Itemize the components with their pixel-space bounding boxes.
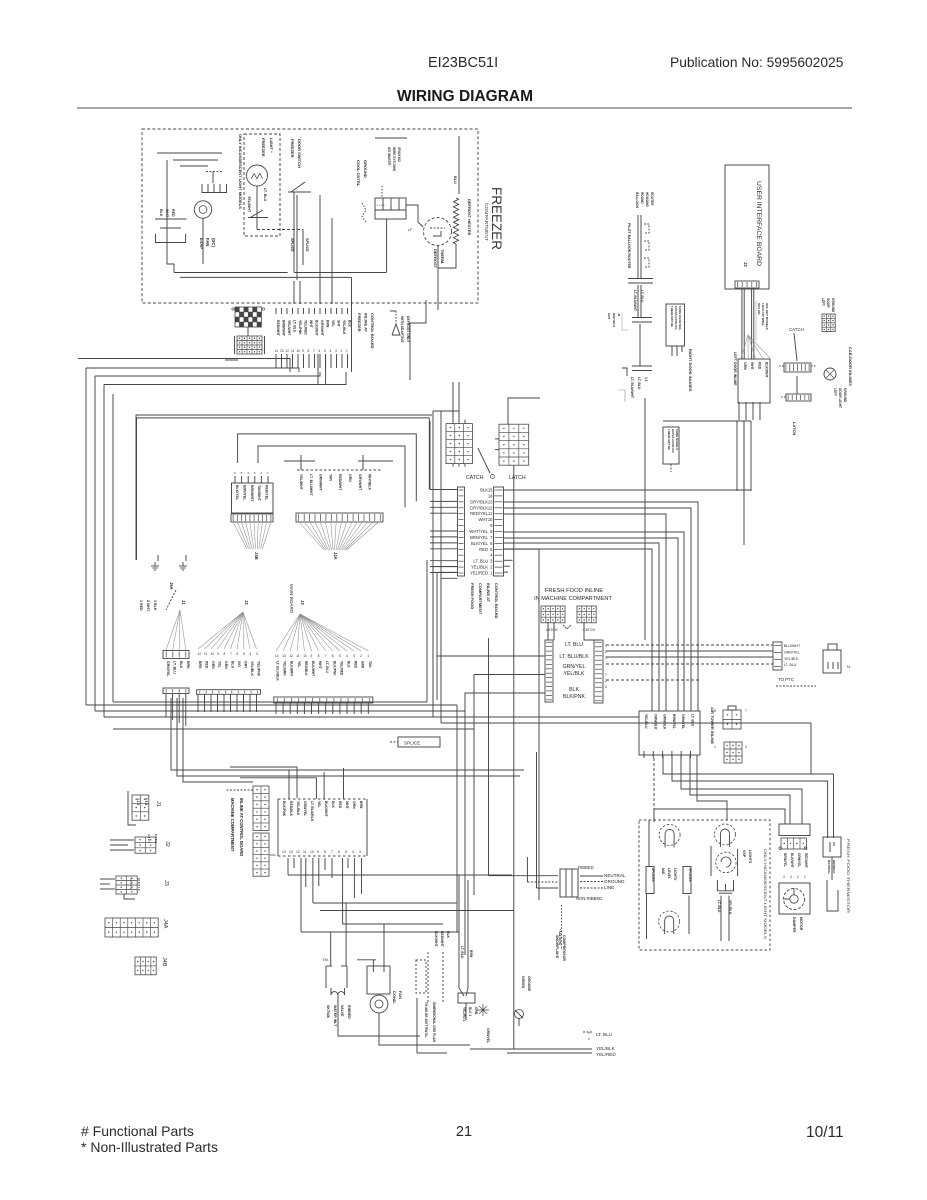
wire	[293, 192, 295, 211]
svg-text:J2: J2	[244, 600, 249, 605]
svg-text:VIO: VIO	[237, 661, 241, 667]
wire	[281, 354, 283, 368]
wire	[230, 767, 297, 798]
air tower box	[639, 711, 700, 755]
wire BLK15	[504, 489, 752, 491]
svg-text:BRN/YEL: BRN/YEL	[470, 535, 489, 540]
wire dashed	[606, 644, 773, 646]
svg-text:GROUND: GROUND	[604, 879, 625, 884]
wire	[302, 230, 304, 266]
svg-text:TAN: TAN	[368, 661, 372, 668]
svg-text:4 3 2 1: 4 3 2 1	[147, 834, 151, 844]
wire	[303, 354, 305, 368]
power plug box	[560, 869, 578, 897]
connector strip left	[458, 487, 465, 576]
svg-text:GRY/WHT: GRY/WHT	[358, 474, 362, 491]
svg-text:JMC: JMC	[270, 853, 277, 857]
light board corner circles	[779, 847, 782, 850]
wire	[177, 698, 520, 776]
wire	[430, 566, 458, 568]
svg-text:DOOR LIGHT: DOOR LIGHT	[838, 388, 842, 408]
svg-text:WIRE SYS DWG: WIRE SYS DWG	[392, 147, 396, 172]
wire	[172, 694, 174, 721]
balloon mid connector	[628, 278, 653, 280]
svg-text:3: 3	[256, 652, 258, 656]
wire	[430, 536, 458, 538]
user interface board box	[725, 165, 769, 289]
wire	[606, 679, 700, 681]
ground bolt	[515, 1010, 524, 1019]
wire rail	[174, 272, 288, 274]
svg-text:LEVEL: LEVEL	[667, 868, 671, 879]
wire	[418, 222, 423, 227]
wire	[157, 555, 159, 561]
svg-text:DOOR SWITCH: DOOR SWITCH	[297, 139, 302, 168]
svg-text:INLINE AT: INLINE AT	[486, 583, 491, 603]
wire	[357, 959, 376, 961]
wire	[430, 489, 458, 491]
svg-text:7: 7	[230, 652, 232, 656]
wire	[217, 694, 219, 712]
svg-text:LATCH: LATCH	[509, 475, 526, 481]
svg-text:FRESH FOOD INLINE: FRESH FOOD INLINE	[545, 588, 603, 594]
J4A connector	[105, 918, 158, 937]
wire	[256, 186, 258, 210]
J2 connector	[135, 837, 156, 853]
dashed bracket	[416, 960, 426, 993]
svg-text:2: 2	[745, 745, 747, 749]
svg-text:15: 15	[488, 488, 493, 493]
svg-text:2 WHT: 2 WHT	[146, 600, 150, 612]
svg-text:MAIN BOARD: MAIN BOARD	[289, 584, 294, 614]
wire	[343, 923, 443, 925]
note box 2 ticks	[671, 346, 673, 356]
catch-latch circle	[491, 475, 495, 479]
svg-text:SOME DOOR MDL: SOME DOOR MDL	[678, 306, 682, 331]
wire	[648, 820, 650, 866]
svg-text:2: 2	[360, 654, 362, 658]
svg-text:YEL/WHT: YEL/WHT	[287, 320, 291, 336]
wire	[300, 858, 302, 932]
svg-text:12: 12	[286, 349, 290, 353]
svg-text:YEL/BLK: YEL/BLK	[342, 320, 346, 335]
svg-text:WHT/BLK: WHT/BLK	[368, 474, 372, 491]
wire	[736, 421, 738, 491]
circle vsp	[716, 852, 736, 872]
freezer light switch	[248, 217, 268, 219]
svg-text:YEL/WHT: YEL/WHT	[247, 196, 251, 213]
svg-text:MOTOR: MOTOR	[799, 917, 803, 931]
svg-text:8: 8	[318, 654, 320, 658]
svg-text:BLU/WHT: BLU/WHT	[784, 644, 801, 648]
wire	[95, 372, 320, 376]
svg-text:11: 11	[488, 511, 493, 516]
wire	[331, 218, 333, 304]
svg-text:FREEZER: FREEZER	[489, 187, 504, 250]
svg-text:BLK/WHT: BLK/WHT	[790, 853, 794, 868]
evap fan connector bracket	[202, 184, 227, 193]
svg-text:8: 8	[324, 850, 326, 854]
svg-text:3: 3	[353, 654, 355, 658]
svg-text:WIRING DIAGRAM: WIRING DIAGRAM	[397, 88, 533, 105]
wire	[331, 281, 333, 304]
svg-text:GRY/BLK: GRY/BLK	[470, 499, 488, 504]
wire	[458, 136, 460, 194]
svg-text:J6A: J6A	[169, 582, 174, 590]
svg-text:ORN: ORN	[211, 661, 215, 669]
evap fan lower bracket	[156, 234, 186, 243]
svg-text:LEFT DOOR INLINE: LEFT DOOR INLINE	[733, 352, 737, 386]
wire	[429, 421, 431, 490]
wire	[292, 354, 294, 368]
ground symbol	[154, 562, 156, 566]
svg-text:SPLICES: SPLICES	[651, 868, 655, 882]
svg-text:ORN: ORN	[743, 362, 747, 370]
svg-text:2: 2	[797, 875, 799, 879]
svg-text:LT. BLU/BLK: LT. BLU/BLK	[310, 801, 314, 822]
svg-text:THERE MAY BE: THERE MAY BE	[670, 306, 674, 327]
svg-text:RED/WHT: RED/WHT	[804, 853, 808, 868]
wire	[355, 902, 456, 904]
svg-text:LIGHT *: LIGHT *	[269, 138, 274, 153]
wire	[238, 434, 417, 502]
svg-text:BLK/PNK: BLK/PNK	[563, 694, 585, 700]
svg-text:YEL/RED: YEL/RED	[470, 571, 488, 576]
svg-text:BLK/WHT: BLK/WHT	[311, 661, 315, 676]
mach grid lower	[253, 833, 269, 876]
light board connector box	[779, 824, 810, 836]
wire	[183, 698, 253, 782]
circle left door light	[824, 368, 836, 380]
wire	[547, 622, 549, 640]
wire	[104, 372, 346, 385]
wire	[256, 218, 258, 230]
svg-text:N: N	[847, 664, 850, 669]
svg-text:RIBBED: RIBBED	[347, 1005, 351, 1019]
svg-text:NEUTRAL: NEUTRAL	[604, 873, 626, 878]
svg-text:COMPARTMENT: COMPARTMENT	[483, 203, 489, 241]
wire	[474, 674, 545, 676]
J4B connector	[135, 957, 156, 975]
svg-text:4: 4	[352, 850, 354, 854]
wire	[339, 703, 341, 714]
wire	[330, 932, 332, 966]
svg-text:12: 12	[296, 850, 300, 854]
svg-text:7: 7	[605, 673, 607, 677]
svg-text:SPLICE: SPLICE	[290, 238, 294, 252]
svg-text:GRN: GRN	[474, 1007, 478, 1015]
catch leader diagonal	[478, 448, 490, 473]
wire	[372, 960, 374, 966]
ff inline grid left	[541, 606, 565, 623]
wire	[743, 289, 745, 359]
svg-text:J1: J1	[155, 801, 161, 807]
wire	[432, 411, 434, 717]
small grid	[822, 314, 835, 332]
wire	[299, 281, 301, 304]
wire	[341, 354, 343, 368]
wire bus	[663, 420, 751, 422]
svg-text:BRN: BRN	[326, 320, 330, 328]
freezer light dashed box	[244, 134, 280, 236]
wire	[379, 1013, 470, 1045]
wire	[286, 354, 288, 368]
svg-text:5 4 3 2 1: 5 4 3 2 1	[129, 878, 133, 889]
wire	[644, 398, 646, 640]
wire	[720, 896, 722, 941]
svg-text:BLK: BLK	[446, 931, 450, 939]
svg-text:SNOWFLAKE: SNOWFLAKE	[555, 935, 559, 959]
svg-text:BLK: BLK	[347, 661, 351, 668]
J1 fan	[166, 610, 180, 650]
to ptc dashes	[776, 685, 816, 687]
wire	[275, 703, 277, 714]
svg-text:ORN/YEL: ORN/YEL	[797, 853, 801, 867]
wire	[347, 354, 349, 368]
svg-text:# Functional Parts: # Functional Parts	[81, 1123, 194, 1139]
svg-text:SOME MODELS: SOME MODELS	[675, 429, 679, 450]
wire	[606, 656, 773, 658]
svg-text:LT. BLU: LT. BLU	[293, 320, 297, 333]
svg-text:J2: J2	[164, 841, 170, 847]
wire	[308, 354, 310, 368]
J4A top bracket	[284, 460, 315, 462]
ice maker connector box	[375, 198, 406, 210]
wire dashed	[381, 186, 383, 198]
lamp bulb 3	[659, 911, 680, 932]
svg-text:BLK/YEL: BLK/YEL	[235, 485, 239, 501]
svg-text:GREEN: GREEN	[521, 976, 525, 989]
wire	[637, 215, 639, 278]
wire	[697, 755, 727, 820]
svg-text:CATCH: CATCH	[789, 327, 804, 332]
wire	[452, 382, 454, 420]
small connector with dashes	[786, 394, 811, 401]
wire	[137, 417, 430, 419]
svg-text:J4A: J4A	[162, 919, 168, 929]
wire	[796, 376, 798, 394]
lamp bulb 1	[659, 824, 680, 845]
svg-text:3 BLK: 3 BLK	[153, 600, 157, 611]
svg-text:BLK/WHT: BLK/WHT	[324, 801, 328, 818]
svg-text:ONLY INCANDESCENT LIGHT MODELS: ONLY INCANDESCENT LIGHT MODELS	[238, 134, 243, 209]
J3 connector	[116, 876, 137, 894]
svg-text:COND.: COND.	[392, 991, 397, 1004]
wire rail	[180, 276, 352, 278]
UI fan	[741, 335, 748, 358]
svg-text:LT. BLU: LT. BLU	[637, 377, 641, 390]
wire	[282, 703, 284, 714]
svg-text:YEL/PNK: YEL/PNK	[298, 320, 302, 335]
svg-text:8: 8	[714, 709, 716, 713]
adaptive defrost triangle	[392, 324, 400, 335]
svg-text:BLK 1: BLK 1	[468, 1007, 472, 1016]
wire	[178, 694, 180, 724]
svg-text:HOUSING: HOUSING	[645, 192, 649, 207]
wire	[288, 874, 512, 876]
latch pin strip	[784, 363, 811, 372]
ff strip left	[545, 640, 553, 702]
svg-text:BLK/WHT: BLK/WHT	[765, 362, 769, 379]
wire	[465, 693, 545, 948]
wire	[437, 246, 439, 310]
svg-text:LIGHTS: LIGHTS	[673, 868, 677, 881]
svg-text:WHT/YEL: WHT/YEL	[469, 529, 488, 534]
wire	[197, 694, 199, 712]
splices box 2	[683, 867, 691, 894]
svg-text:YEL: YEL	[297, 661, 301, 667]
wire dashed	[527, 881, 558, 883]
wire	[406, 205, 418, 222]
svg-text:13: 13	[282, 654, 286, 658]
svg-text:MACHINE COMPARTMENT: MACHINE COMPARTMENT	[230, 798, 235, 852]
door switch symbol	[288, 191, 311, 193]
svg-text:3: 3	[359, 850, 361, 854]
svg-text:WITH ADAPTIVE: WITH ADAPTIVE	[400, 316, 404, 343]
wire	[347, 858, 349, 868]
svg-text:11: 11	[303, 850, 307, 854]
svg-text:RED: RED	[205, 661, 209, 669]
wire rail	[104, 716, 433, 718]
svg-text:RED/BLK: RED/BLK	[304, 661, 308, 676]
svg-text:BLK: BLK	[348, 320, 352, 328]
svg-text:4: 4	[330, 349, 332, 353]
wire	[319, 195, 321, 304]
svg-text:* Non-Illustrated Parts: * Non-Illustrated Parts	[81, 1139, 218, 1155]
evap fan connector ticks	[207, 184, 209, 193]
svg-text:FREEZER: FREEZER	[357, 313, 362, 332]
svg-text:DEFROST: DEFROST	[433, 249, 438, 269]
svg-text:CATCH: CATCH	[466, 475, 484, 481]
svg-text:1 2: 1 2	[644, 377, 648, 382]
power leaders	[580, 875, 603, 877]
damper motor box	[779, 883, 810, 914]
wire dashed	[606, 663, 773, 665]
svg-text:BLK: BLK	[331, 801, 335, 809]
svg-text:4: 4	[250, 652, 252, 656]
wire	[330, 354, 332, 368]
wire	[94, 376, 96, 711]
supply stub	[375, 137, 407, 139]
svg-text:LOCK MY WIRE: LOCK MY WIRE	[761, 303, 765, 325]
svg-text:COMPARTMENT: COMPARTMENT	[478, 583, 483, 615]
svg-text:YEL/RED: YEL/RED	[304, 320, 308, 335]
air tower pin ticks	[643, 751, 645, 758]
svg-text:GRN/YEL: GRN/YEL	[784, 650, 800, 654]
svg-text:BLK/WHT: BLK/WHT	[315, 320, 319, 337]
wire	[293, 211, 295, 272]
wire	[319, 354, 321, 368]
wire	[351, 277, 353, 372]
wire	[751, 289, 753, 359]
svg-text:WHT/BLU: WHT/BLU	[612, 313, 616, 327]
compressor area bracket	[416, 998, 418, 1053]
wire	[367, 703, 369, 714]
svg-text:10 9 8 7 6: 10 9 8 7 6	[137, 878, 141, 891]
wire	[361, 858, 363, 894]
wire	[297, 354, 299, 368]
wire	[293, 281, 295, 304]
svg-text:VALVE: VALVE	[340, 1005, 344, 1017]
conn3 pin strip	[274, 697, 373, 703]
lamp bulb 2	[715, 824, 736, 845]
wire	[464, 948, 466, 955]
svg-text:TAN/WHT: TAN/WHT	[257, 485, 261, 502]
water valve bracket	[325, 966, 327, 988]
svg-text:10: 10	[310, 850, 314, 854]
wire	[202, 218, 204, 264]
air tower grid lower	[724, 742, 742, 763]
wire	[303, 703, 305, 714]
motor evap fan	[194, 201, 211, 218]
wire	[728, 896, 730, 941]
wire	[440, 411, 442, 723]
wire	[320, 910, 514, 912]
svg-text:DEFROST HEATER: DEFROST HEATER	[467, 199, 472, 235]
svg-text:BRN/YEL: BRN/YEL	[783, 853, 787, 867]
svg-text:WHT: WHT	[750, 362, 754, 371]
svg-text:YEL/RED: YEL/RED	[596, 1052, 616, 1057]
svg-text:LT. BLU: LT. BLU	[596, 1032, 612, 1037]
wire	[606, 650, 773, 652]
svg-text:BRN: BRN	[469, 950, 473, 958]
wire rail	[441, 722, 811, 724]
wire	[325, 354, 327, 368]
svg-text:10: 10	[297, 349, 301, 353]
wire	[342, 858, 344, 924]
wire	[470, 1048, 592, 1050]
svg-text:* * * *: * * * *	[377, 204, 385, 208]
wire	[136, 418, 138, 560]
wire	[432, 567, 434, 701]
conn2 pin strip	[197, 690, 261, 695]
svg-text:ROUTER: ROUTER	[650, 192, 654, 206]
svg-text:10: 10	[303, 654, 307, 658]
svg-text:9: 9	[217, 652, 219, 656]
wire	[433, 566, 458, 568]
svg-text:EXTRA CONN ON: EXTRA CONN ON	[674, 306, 678, 329]
svg-text:GROUND: GROUND	[363, 160, 368, 178]
wire rail	[113, 728, 474, 730]
svg-text:RED/BLK: RED/BLK	[289, 801, 293, 817]
svg-text:INLINE AT CONTROL BOARD: INLINE AT CONTROL BOARD	[239, 798, 244, 856]
conn1 pin strip	[163, 688, 189, 694]
wire pair	[459, 875, 464, 996]
svg-text:7: 7	[745, 709, 747, 713]
svg-text:5: 5	[345, 850, 347, 854]
svg-text:CONTROL BOARD: CONTROL BOARD	[494, 583, 499, 619]
svg-text:RED: RED	[354, 661, 358, 669]
svg-text:LT. BLU/WHT: LT. BLU/WHT	[633, 290, 637, 312]
wire	[318, 858, 320, 886]
thermistor inner tick	[829, 842, 831, 852]
arrow	[563, 625, 571, 629]
bulb freezer light	[247, 165, 268, 186]
svg-text:TAN: TAN	[328, 474, 332, 481]
svg-text:GRN/YEL: GRN/YEL	[166, 661, 170, 677]
defrost thermostat contacts	[430, 227, 445, 229]
svg-text:SPLICE: SPLICE	[404, 741, 420, 746]
svg-text:LT. BLU/BLK: LT. BLU/BLK	[559, 654, 589, 660]
svg-text:(DC): (DC)	[211, 238, 216, 247]
svg-text:3: 3	[605, 685, 607, 689]
cond fan bracket	[367, 966, 390, 994]
svg-text:KEY ON: KEY ON	[757, 303, 761, 314]
balloon connector 3	[632, 365, 652, 367]
svg-text:5: 5	[243, 652, 245, 656]
svg-text:13: 13	[280, 349, 284, 353]
wire	[646, 893, 648, 939]
